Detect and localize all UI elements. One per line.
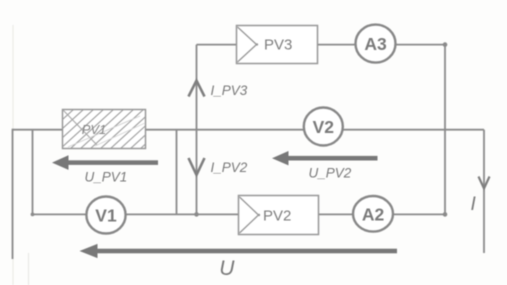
current arrow I (down, right side) xyxy=(479,177,490,189)
svg-text:V1: V1 xyxy=(95,206,117,226)
wire: bottom rail through V1 to PV2 xyxy=(33,213,239,215)
wire: branch vertical I_PV3/I_PV2 xyxy=(196,45,198,215)
scan artifact left edge line xyxy=(12,25,14,285)
PV module PV1 (hatched box) xyxy=(30,109,184,149)
svg-text:U_PV1: U_PV1 xyxy=(85,170,128,185)
junction dot at right corner top xyxy=(443,42,448,47)
svg-text:PV3: PV3 xyxy=(264,37,292,54)
current arrow I_PV2 (down) xyxy=(189,158,205,175)
svg-text:A3: A3 xyxy=(364,34,387,54)
wire: main rail right of PV1 to right corner xyxy=(146,129,484,131)
voltage arrow U_PV1 xyxy=(52,155,158,170)
svg-text:U: U xyxy=(219,257,235,280)
svg-text:I_PV2: I_PV2 xyxy=(211,160,248,175)
wire: top rail to PV3 xyxy=(197,44,237,46)
svg-text:I_PV3: I_PV3 xyxy=(211,83,248,98)
junction dot at right corner bottom xyxy=(443,212,448,217)
scan artifact bottom-left line xyxy=(28,253,30,285)
junction dot at branch/bottom rail xyxy=(194,212,199,217)
wire: V1 loop right vertical xyxy=(176,130,178,215)
wire: right terminal vertical with I xyxy=(483,130,485,253)
voltage arrow U_PV2 xyxy=(272,151,378,165)
svg-text:PV2: PV2 xyxy=(263,208,291,225)
wire: PV2 to A2 to right vertical xyxy=(319,213,445,215)
voltmeter V1 xyxy=(86,197,125,234)
wire: far-left terminal vertical xyxy=(12,129,14,259)
svg-text:V2: V2 xyxy=(313,117,335,137)
wire: right branch vertical A3 to A2 xyxy=(444,45,446,215)
junction dot at V1 loop bottom-left corner xyxy=(31,213,35,217)
svg-text:I: I xyxy=(471,194,477,215)
current arrow I_PV3 (up) xyxy=(189,81,205,97)
svg-text:U_PV2: U_PV2 xyxy=(309,166,352,181)
wire: V1 loop left vertical xyxy=(32,130,34,215)
PV module PV3 (box with chevron) xyxy=(237,26,318,64)
voltage arrow U (bottom) xyxy=(80,244,398,258)
svg-text:PV1: PV1 xyxy=(82,122,107,137)
ammeter A2 xyxy=(353,196,393,232)
svg-text:A2: A2 xyxy=(362,204,385,224)
wire: main rail left segment xyxy=(13,129,63,131)
wire: PV3 to A3 to right corner xyxy=(317,44,445,46)
voltmeter V2 xyxy=(304,108,343,146)
PV module PV2 (box with chevron) xyxy=(239,196,319,235)
ammeter A3 xyxy=(356,25,396,63)
